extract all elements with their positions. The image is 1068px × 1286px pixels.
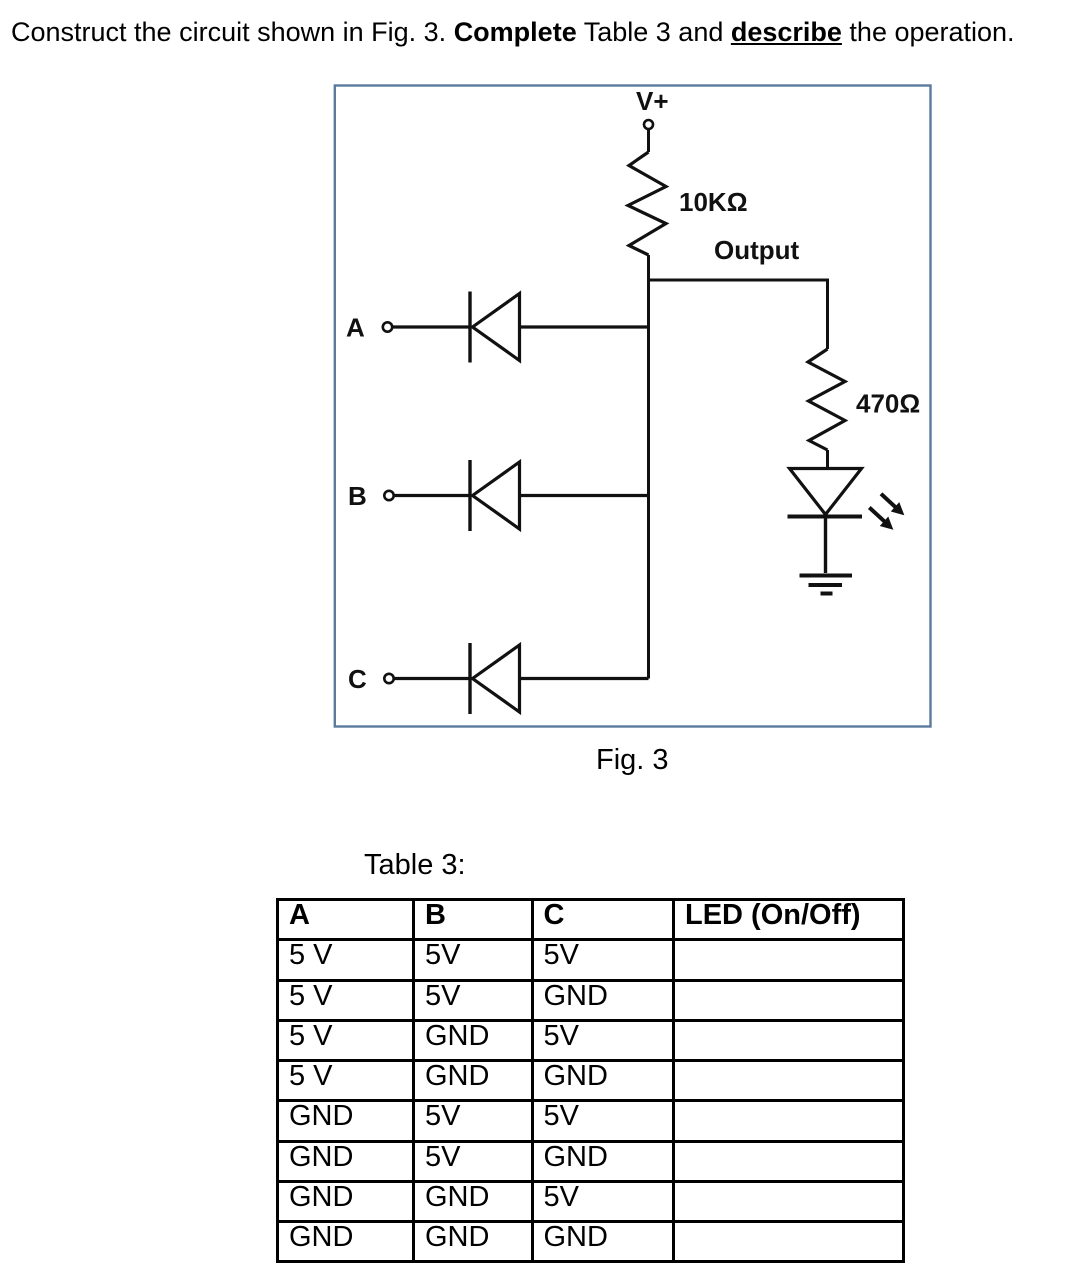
wire A to D1 xyxy=(393,325,471,328)
diode D1 cathode bar xyxy=(468,292,471,363)
LED emission arrow 2 xyxy=(869,508,892,530)
heading paragraph xyxy=(11,19,1015,46)
resistor R2 470Ω xyxy=(808,349,845,450)
wire C to D3 xyxy=(394,677,470,680)
diode D1 triangle xyxy=(473,294,520,361)
wire R2 to LED xyxy=(826,450,829,469)
wire D2 to bus xyxy=(520,494,649,497)
diode D2 triangle xyxy=(473,462,520,529)
wire D1 to bus xyxy=(520,325,649,328)
terminal C xyxy=(384,674,393,683)
terminal B xyxy=(384,491,393,500)
wire bus vertical xyxy=(647,255,650,679)
LED emission arrow 1 xyxy=(881,494,904,515)
diode D3 triangle xyxy=(473,645,520,712)
ground symbol xyxy=(800,576,853,594)
svg-text:V+: V+ xyxy=(636,86,669,116)
LED D4 triangle xyxy=(790,469,862,515)
circuit figure xyxy=(0,0,1068,800)
caption Fig. 3 xyxy=(596,746,669,775)
wire LED to ground xyxy=(824,517,827,574)
svg-text:B: B xyxy=(348,481,367,511)
wire V+ to R1 xyxy=(647,130,650,153)
terminal V+ xyxy=(644,120,653,129)
diode D3 cathode bar xyxy=(468,643,471,714)
diode D2 cathode bar xyxy=(468,460,471,531)
svg-text:10KΩ: 10KΩ xyxy=(679,187,748,217)
wire D3 to bus xyxy=(520,677,649,680)
terminal A xyxy=(383,322,392,331)
wire B to D2 xyxy=(394,494,470,497)
svg-text:470Ω: 470Ω xyxy=(856,389,920,419)
figure border box xyxy=(335,86,931,727)
LED cathode bar xyxy=(788,515,863,519)
wire output down to R2 xyxy=(826,279,829,350)
Table 3 xyxy=(276,898,905,1263)
svg-text:Output: Output xyxy=(714,235,800,265)
svg-text:A: A xyxy=(346,313,365,343)
table label xyxy=(364,851,466,880)
resistor R1 10KΩ xyxy=(628,152,666,255)
wire output horizontal xyxy=(647,279,828,282)
svg-text:C: C xyxy=(348,664,367,694)
